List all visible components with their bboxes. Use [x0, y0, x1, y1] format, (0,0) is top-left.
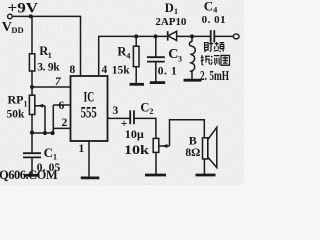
- svg-text:10µ: 10µ: [125, 129, 144, 141]
- wire C2 to pot: [134, 118, 156, 138]
- wire speaker to ground: [203, 159, 205, 175]
- junction dot rail-pins: [51, 131, 55, 135]
- wire wiper down: [44, 106, 46, 133]
- wire C1 to ground: [31, 157, 33, 175]
- resistor R4 body: [133, 46, 139, 66]
- speaker B driver: [203, 138, 208, 159]
- svg-text:15k: 15k: [112, 65, 131, 77]
- svg-text:1: 1: [48, 51, 52, 60]
- ground pin1: [81, 176, 100, 179]
- label eliuquan (扼流圈) hand-drawn: [201, 55, 230, 65]
- svg-text:2: 2: [149, 107, 153, 116]
- svg-text:1: 1: [79, 143, 85, 155]
- svg-text:6: 6: [59, 100, 65, 112]
- speaker B cone: [208, 127, 217, 167]
- ground R4: [130, 83, 145, 86]
- wire C3 top: [155, 36, 157, 57]
- wire R4 to ground: [135, 67, 137, 84]
- junction dot C3: [154, 34, 158, 38]
- node A junction dot: [29, 14, 33, 18]
- svg-text:10k: 10k: [124, 142, 150, 157]
- wire pin 8 vertical: [80, 16, 82, 76]
- junction dot rail-wiper: [43, 131, 47, 135]
- svg-text:C: C: [204, 0, 213, 14]
- terminal output circle: [233, 34, 239, 39]
- svg-text:+9V: +9V: [8, 1, 39, 17]
- svg-text:RP: RP: [8, 93, 24, 107]
- svg-text:DD: DD: [11, 25, 23, 35]
- svg-text:B: B: [189, 134, 197, 148]
- potentiometer RP1 wiper arrow: [35, 105, 45, 107]
- wire R1 to node B: [31, 71, 33, 95]
- potentiometer 10k wiper arrow: [160, 145, 170, 147]
- wire pin 6: [53, 104, 70, 106]
- wire pin 7: [32, 86, 71, 88]
- capacitor C3 plates: [147, 56, 165, 58]
- svg-text:8Ω: 8Ω: [185, 147, 200, 159]
- capacitor C2 plates: [129, 110, 131, 124]
- wire pin 1: [88, 141, 90, 178]
- wire net D horizontal: [98, 35, 168, 37]
- wire R4 top: [135, 36, 137, 46]
- inductor L choke coil: [191, 36, 193, 42]
- junction dot L: [190, 34, 194, 38]
- wire wiper to speaker: [170, 120, 205, 146]
- op IC 555 box: [71, 76, 108, 141]
- wire bottom rail: [32, 132, 54, 134]
- wire pin 2: [53, 127, 70, 129]
- wire pot bottom to ground: [155, 152, 157, 174]
- wire top rail: [31, 15, 82, 17]
- wire pin 3: [108, 117, 131, 119]
- svg-text:8: 8: [70, 64, 76, 76]
- svg-text:C: C: [168, 47, 178, 62]
- wire pin 4 vertical: [98, 36, 100, 76]
- svg-text:IC: IC: [84, 90, 95, 106]
- wire pins 6-2 vertical connector: [52, 105, 54, 133]
- svg-text:D: D: [165, 1, 174, 15]
- svg-text:2. 5mH: 2. 5mH: [200, 69, 229, 84]
- ground L: [184, 79, 202, 82]
- wire rail down to C1: [31, 133, 33, 153]
- svg-text:2: 2: [62, 117, 68, 129]
- junction dot R4: [134, 34, 138, 38]
- svg-text:0. 01: 0. 01: [202, 14, 226, 26]
- svg-text:0. 1: 0. 1: [158, 65, 177, 77]
- svg-text:4: 4: [102, 64, 108, 76]
- capacitor C4 plates: [210, 30, 212, 42]
- svg-text:C: C: [44, 145, 53, 160]
- diode D1: [168, 31, 177, 40]
- wire L to ground: [191, 71, 193, 80]
- svg-text:2AP10: 2AP10: [155, 16, 187, 28]
- svg-text:C: C: [140, 101, 149, 115]
- junction dot rail-RP1: [30, 131, 34, 135]
- wire C3 to ground: [155, 62, 157, 83]
- svg-text:50k: 50k: [7, 109, 26, 121]
- wire terminal to node A: [12, 15, 30, 17]
- svg-text:1: 1: [174, 7, 178, 16]
- capacitor C1 plates: [23, 152, 41, 154]
- potentiometer 10k body: [153, 138, 159, 152]
- svg-text:1: 1: [53, 153, 57, 162]
- svg-text:1: 1: [24, 100, 28, 109]
- wire diode to L node: [176, 35, 210, 37]
- svg-text:Q606.COM: Q606.COM: [0, 168, 58, 182]
- ground speaker: [196, 174, 216, 177]
- wire node A down to R1: [31, 16, 33, 54]
- resistor R1 body: [29, 54, 34, 71]
- svg-text:555: 555: [81, 104, 97, 121]
- svg-text:4: 4: [126, 51, 130, 60]
- node B junction dot (pin7): [30, 85, 34, 89]
- ground C3: [150, 81, 165, 84]
- ground C1: [25, 174, 40, 177]
- potentiometer RP1 body: [29, 95, 34, 114]
- svg-text:3. 9k: 3. 9k: [37, 61, 60, 73]
- wire RP1 bottom down: [31, 115, 33, 134]
- wire C4 to output: [214, 35, 233, 37]
- svg-text:3: 3: [178, 55, 182, 64]
- label shepin (射频) hand-drawn: [205, 42, 225, 52]
- svg-text:3: 3: [113, 105, 119, 117]
- ground pot: [145, 174, 166, 177]
- terminal +9V input circle: [8, 14, 13, 19]
